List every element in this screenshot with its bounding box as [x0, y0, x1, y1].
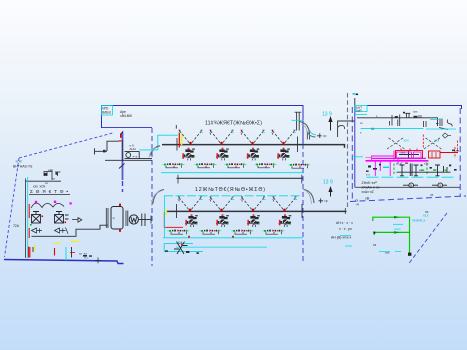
elbow pipe down-right — [308, 132, 316, 138]
valve cluster K1 — [163, 163, 185, 168]
return line red specks — [188, 236, 190, 238]
magenta AHU frame 2 — [414, 152, 422, 158]
tank inlet bars — [106, 208, 108, 228]
magenta upper bus — [372, 157, 426, 159]
riser connect pipe — [338, 121, 355, 137]
svg-text:xx: xx — [52, 177, 56, 181]
riser up arrow — [330, 120, 332, 131]
AHU red box ticks — [401, 149, 417, 151]
bank2 drain cyan header — [176, 246, 267, 248]
spray unit S8 — [272, 197, 297, 212]
bank2 return pipe cyan — [163, 237, 303, 239]
svg-text:AHU: AHU — [130, 147, 136, 151]
cyan tick left — [352, 156, 363, 158]
leader dashed down left — [5, 158, 20, 257]
riser hook fitting — [337, 126, 344, 131]
collector body lines — [125, 152, 153, 159]
bank2 supply end ticks — [177, 204, 303, 218]
right section dashed border left — [351, 107, 353, 201]
upper equipment cluster — [26, 170, 62, 182]
leader arrowhead red — [120, 134, 122, 138]
plant box B1 top edge — [102, 106, 304, 145]
pump P1 marks — [42, 216, 44, 218]
svg-text:xxx: xxx — [385, 250, 390, 254]
bank1 left supply branch cyan corner — [158, 135, 178, 150]
cyan tick on pipe — [430, 118, 440, 120]
svg-text:13 9: 13 9 — [323, 180, 333, 186]
svg-text:xLAi: xLAi — [16, 160, 22, 164]
top pipe valve marks — [414, 116, 418, 118]
pump circle — [126, 153, 131, 158]
spray unit S2 — [209, 130, 234, 145]
row small marks — [368, 166, 371, 168]
svg-text:AH·(B)·x/xx·x: AH·(B)·x/xx·x — [331, 236, 352, 240]
svg-text:5: 5 — [410, 184, 412, 188]
red wall dashes — [28, 204, 31, 258]
svg-text:=F: =F — [323, 134, 327, 138]
bank1 supply end tick right — [297, 137, 299, 153]
spray unit S7 — [240, 197, 265, 212]
svg-text:=F: =F — [324, 200, 328, 204]
bank2 drain cyan loop — [164, 244, 203, 252]
bottom small red L — [70, 252, 75, 254]
collector top branch — [107, 141, 119, 151]
svg-text:ZtaR: ZtaR — [355, 109, 361, 113]
W pump circle — [129, 215, 138, 224]
right section dashed border right — [459, 108, 461, 197]
riser matchline dashed pair — [347, 93, 349, 209]
W pump outlet — [138, 219, 151, 221]
bank2 red corner pipe — [164, 212, 183, 227]
matchline dashed left — [122, 181, 124, 192]
bank1 right elbow — [300, 122, 310, 134]
bottom risers cyan — [65, 247, 67, 261]
green arrow 1 — [394, 216, 400, 219]
svg-text:3: 3 — [439, 184, 441, 188]
valve cluster K6 — [168, 230, 190, 235]
flow arrow — [72, 218, 82, 223]
svg-text:xx xT: xx xT — [396, 162, 403, 166]
diamond fitting outside — [443, 133, 452, 138]
fan F6 — [216, 214, 229, 227]
svg-text:x · x · px: x · x · px — [339, 227, 352, 231]
collector outlet cyan — [140, 149, 158, 151]
magenta dots — [35, 201, 37, 203]
pump room bottom border — [4, 260, 124, 264]
flange H — [142, 214, 145, 227]
title block cyan — [102, 106, 113, 116]
floor drain marks — [83, 255, 87, 257]
svg-text:BHTHAS-YS: BHTHAS-YS — [13, 165, 33, 169]
union fitting lower — [319, 198, 324, 203]
right title block cyan — [355, 106, 368, 112]
magenta drops — [375, 158, 398, 176]
tank red ticks — [119, 204, 121, 206]
svg-text:x·x: x·x — [178, 241, 183, 245]
valve cluster K8 — [232, 230, 254, 235]
green dashed risers — [394, 164, 427, 176]
spray unit S4 — [271, 130, 296, 145]
AHU red box 1 — [396, 151, 423, 159]
fan F4 — [277, 148, 290, 161]
duct X right — [424, 137, 442, 149]
svg-text:xxAx·xZ: xxAx·xZ — [362, 190, 374, 194]
magenta supply bus — [366, 160, 429, 162]
left wall lines — [25, 179, 27, 259]
svg-text:xHxHLx: xHxHLx — [412, 219, 425, 223]
magenta AHU frame 1 — [397, 152, 412, 158]
suction header arcs — [31, 203, 64, 208]
svg-text:B/Bsd: B/Bsd — [102, 111, 111, 115]
svg-text:ΣΘЯ€ΤΘ•: ΣΘЯ€ΤΘ• — [30, 189, 68, 194]
svg-text:xxx: xxx — [434, 139, 440, 143]
svg-text:xxx: xxx — [413, 110, 418, 114]
bank1 red riser bar — [178, 133, 180, 148]
svg-text:x5: x5 — [430, 193, 434, 197]
fan F2 — [216, 148, 229, 161]
svg-text:xxx: xxx — [404, 139, 410, 143]
valve cluster K5 — [289, 164, 311, 169]
lower valve row A — [32, 228, 69, 234]
spray unit S3 — [240, 130, 265, 145]
legend row 5 cyan dashes — [379, 251, 401, 253]
yellow marks — [34, 245, 36, 250]
suction pipe low — [32, 225, 108, 236]
branch dot — [103, 150, 106, 153]
plant box B1 inner shelf line — [102, 127, 153, 129]
duct X left — [387, 137, 405, 149]
bank1 right riser pipes — [297, 113, 300, 131]
svg-text:xx: xx — [373, 243, 377, 247]
cyan low header — [367, 176, 456, 178]
svg-text:11#¾ЖЯ€Τ(Ж№ΘЖ•Σ): 11#¾ЖЯ€Τ(Ж№ΘЖ•Σ) — [205, 121, 262, 127]
legend end dot — [408, 253, 411, 256]
green arrow 2 — [394, 231, 400, 234]
right section dashed border bottom — [350, 196, 466, 202]
valve cluster K7 — [200, 230, 222, 235]
svg-text:ZHxK·xxª: ZHxK·xxª — [362, 181, 378, 185]
svg-text:×÷x: ×÷x — [133, 155, 138, 159]
svg-text:xLx: xLx — [423, 213, 429, 217]
pink stub — [366, 157, 372, 159]
svg-text:xax: xax — [48, 168, 53, 172]
spray unit S6 — [209, 197, 234, 212]
top specks — [353, 93, 355, 95]
black dot small — [373, 232, 375, 234]
meter symbol M2 — [432, 184, 447, 186]
svg-text:xB·: xB· — [365, 197, 370, 201]
component row T1 — [397, 164, 451, 177]
outlet tail tick — [150, 216, 152, 224]
pump P1 — [32, 212, 41, 224]
fan F8 — [279, 214, 292, 227]
bank2 supply main pipe — [167, 210, 347, 212]
svg-text:xB/LBIK: xB/LBIK — [120, 114, 133, 118]
fan F5 — [185, 214, 198, 227]
AHU red box 2 — [429, 151, 441, 158]
spray unit S5 — [177, 197, 202, 212]
red center dashes — [423, 135, 457, 159]
svg-text:x¦: x¦ — [113, 216, 116, 220]
bank1 return pipe cyan — [161, 172, 304, 174]
union fitting upper — [317, 133, 322, 138]
svg-text:x·x: x·x — [366, 173, 370, 177]
bank1 yellow riser bar — [181, 134, 183, 146]
elbow pipes at bank2 right — [304, 190, 315, 204]
magenta sub loop — [372, 151, 395, 161]
matchline dashed mid — [151, 128, 153, 266]
fan F7 — [247, 214, 260, 227]
title box underline cyan — [355, 113, 367, 115]
riser up arrow lower — [330, 190, 332, 197]
svg-text:AH x · x · x: AH x · x · x — [336, 221, 353, 225]
right box left edge navy — [354, 106, 356, 188]
bottom risers dark — [33, 247, 72, 258]
top pipe fittings — [390, 113, 453, 129]
right section navy top edge — [367, 106, 462, 110]
right cyan header — [361, 128, 424, 130]
collector riser pipe — [122, 133, 124, 180]
bank1/bank2 divider pipe — [177, 177, 304, 179]
valve cluster K9 — [263, 230, 285, 235]
elbow pipes at bank2 left — [153, 190, 164, 204]
svg-text:xTx: xTx — [424, 162, 429, 166]
right top pipe — [357, 118, 438, 126]
divider end ticks — [178, 175, 302, 184]
tank body — [111, 207, 123, 230]
pump P2 — [55, 212, 69, 224]
leader dashed to pump room label — [19, 133, 115, 159]
bottom risers red — [30, 247, 55, 258]
title underline — [29, 194, 70, 196]
svg-text:xx: xx — [425, 210, 429, 214]
svg-text:72A: 72A — [13, 224, 20, 228]
drain fitting under bank2 — [174, 242, 188, 255]
leader dashed diagonal to legend — [409, 213, 448, 264]
collector-to-bank elbow — [151, 146, 161, 156]
W pump inlet bars — [126, 211, 128, 227]
bank2 left cyan riser — [164, 196, 166, 238]
green pipe loop 1 — [373, 217, 410, 235]
right box bottom edge — [355, 186, 460, 188]
spray unit S1 — [178, 130, 203, 145]
fan F1 — [182, 148, 195, 161]
bank1 supply end tick left — [175, 125, 178, 151]
collector drain slash — [119, 164, 125, 169]
AHU box1 inner marks — [399, 151, 419, 158]
collector bottom line — [105, 159, 152, 161]
fan F3 — [247, 148, 260, 161]
svg-text:xx: xx — [45, 181, 49, 185]
pump P2 marks — [65, 222, 67, 224]
valve cluster K4 — [255, 163, 277, 168]
bank2 yellow bar — [165, 210, 167, 216]
bank1 supply main pipe — [162, 145, 345, 148]
valve cluster K2 — [195, 163, 217, 168]
matchline dashed right — [302, 144, 304, 262]
meter symbol M1 — [403, 184, 418, 186]
valve cluster K3 — [225, 163, 247, 168]
svg-text:xAx: xAx — [401, 151, 406, 155]
left edge top stub — [354, 98, 356, 106]
svg-text:12Ж№ΤΘ€(Я№Θ•ЖΣΘ): 12Ж№ΤΘ€(Я№Θ•ЖΣΘ) — [195, 187, 265, 193]
bank2 top cyan line — [164, 195, 302, 197]
green drop to legend dot — [409, 232, 411, 253]
branch tick — [95, 148, 108, 154]
red stub — [119, 140, 122, 142]
